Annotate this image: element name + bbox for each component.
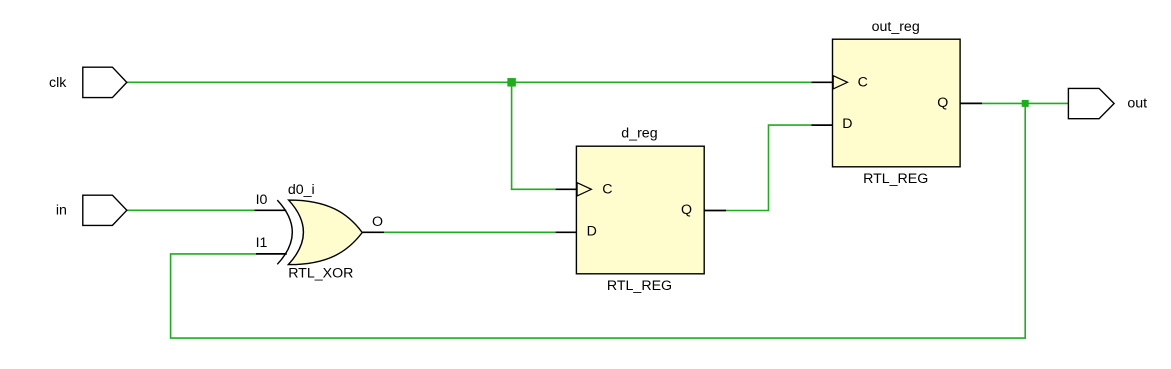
- wire xor output to d_reg D: [384, 231, 555, 233]
- xor gate d0_i pin stub O: [362, 231, 384, 233]
- register d_reg pin stub C: [556, 188, 577, 190]
- svg-text:clk: clk: [49, 75, 67, 91]
- register d_reg body: [576, 146, 704, 274]
- wire feedback net: [171, 103, 1026, 338]
- xor gate d0_i pin stub I0: [254, 209, 286, 211]
- xor gate d0_i input arc: [277, 200, 292, 264]
- svg-text:C: C: [858, 75, 868, 91]
- svg-text:RTL_REG: RTL_REG: [607, 278, 672, 294]
- register d_reg clock triangle: [577, 183, 591, 196]
- wire d_reg Q to out_reg D: [726, 125, 811, 210]
- node junction clk: [507, 78, 515, 87]
- port clk: [83, 67, 127, 97]
- svg-text:Q: Q: [681, 202, 692, 218]
- wire clk net horizontal: [127, 81, 812, 83]
- register out_reg pin stub D: [811, 124, 832, 126]
- wire out_reg Q to out port: [982, 102, 1068, 104]
- register out_reg body: [833, 39, 961, 167]
- svg-text:out_reg: out_reg: [872, 19, 920, 35]
- svg-text:d0_i: d0_i: [288, 182, 315, 198]
- svg-text:I1: I1: [256, 235, 268, 251]
- svg-text:RTL_REG: RTL_REG: [863, 171, 928, 187]
- wire clk net drop to d_reg C: [512, 82, 556, 189]
- port out: [1068, 88, 1114, 118]
- node junction out: [1022, 100, 1029, 107]
- register out_reg pin stub C: [811, 81, 832, 83]
- svg-text:RTL_XOR: RTL_XOR: [288, 266, 353, 282]
- svg-text:C: C: [602, 182, 612, 198]
- svg-text:d_reg: d_reg: [621, 126, 657, 142]
- svg-text:D: D: [587, 224, 597, 240]
- register out_reg pin stub Q: [960, 102, 982, 104]
- svg-text:Q: Q: [937, 95, 948, 111]
- wire in net: [127, 209, 255, 211]
- register out_reg clock triangle: [833, 76, 847, 89]
- svg-text:O: O: [372, 214, 383, 230]
- register d_reg pin stub D: [556, 231, 577, 233]
- register d_reg pin stub Q: [704, 210, 726, 212]
- svg-text:D: D: [842, 116, 852, 132]
- xor gate d0_i pin stub I1: [256, 253, 287, 255]
- port in: [83, 195, 127, 225]
- svg-text:I0: I0: [256, 192, 268, 208]
- svg-text:out: out: [1127, 96, 1147, 112]
- svg-text:in: in: [56, 203, 67, 219]
- xor gate d0_i body: [288, 200, 362, 265]
